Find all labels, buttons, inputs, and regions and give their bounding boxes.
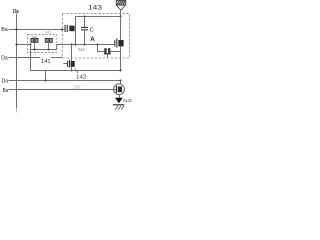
node dot V5/H10 — [70, 69, 72, 71]
wire Da horizontal H7 — [9, 57, 63, 59]
wire scan-line vertical V1 — [16, 14, 18, 109]
svg-text:Da: Da — [2, 79, 9, 85]
wire H4 main row — [57, 44, 115, 46]
node dot H5/V7 — [83, 15, 85, 17]
ELVSS terminal — [113, 104, 124, 109]
transistor M-upper in block 143 — [114, 39, 123, 48]
diode arrow — [115, 98, 123, 103]
dashed block 143 — [63, 14, 130, 58]
node dot T-right gate — [47, 48, 49, 50]
wire V9 into circle — [120, 81, 122, 85]
wire V3 — [45, 71, 47, 81]
node dot H4/V6 — [75, 44, 77, 46]
transistor T-left in block 141 — [31, 36, 38, 49]
transistor Q (circle) driving OLED — [114, 84, 125, 95]
wire V6 — [75, 17, 77, 45]
node dot T-left gate — [33, 48, 35, 50]
svg-text:C: C — [90, 27, 94, 33]
svg-text:ALD: ALD — [123, 98, 132, 103]
wire V9 lower — [120, 46, 122, 70]
wire V9 upper — [120, 17, 122, 41]
wire H11 — [9, 80, 121, 82]
leader line for 142 — [75, 69, 78, 73]
transistor 142 — [63, 45, 74, 71]
svg-text:1411: 1411 — [44, 30, 51, 34]
node dot H11/V3 — [44, 79, 46, 81]
node dot H11/V9 — [119, 79, 121, 81]
wire from power to block — [120, 10, 122, 17]
wire H2 — [17, 44, 31, 46]
node dot H10/V9 — [119, 69, 121, 71]
power ELVDD arrow — [117, 6, 126, 11]
transistor T-right in block 141 — [44, 30, 52, 49]
svg-text:Ba: Ba — [1, 27, 8, 33]
wire ELVDD row H5 — [76, 16, 121, 18]
node dot H1 at x62 — [61, 28, 63, 30]
svg-text:Ba: Ba — [3, 88, 9, 94]
wire H12 base line — [9, 89, 116, 91]
node dot H4/V7 — [83, 43, 85, 45]
wire Ba horizontal H1 — [9, 29, 65, 31]
wire H3 inside block 141 — [31, 49, 57, 51]
capacitor C-left plates — [65, 25, 76, 32]
node dot H5/V9 — [119, 15, 121, 17]
node dot V1/H1 — [15, 28, 17, 30]
power ELVDD hatched bar — [116, 1, 126, 6]
wire V2 — [30, 45, 32, 71]
label 141 (with white backing) — [40, 55, 51, 63]
node dot H2/V2 — [29, 43, 31, 45]
wire H10 — [31, 70, 121, 72]
svg-text:142: 142 — [76, 74, 86, 80]
svg-text:141: 141 — [41, 59, 51, 65]
svg-text:Da: Da — [1, 55, 8, 61]
capacitor C (vertical) — [81, 17, 88, 45]
node dot H4/V8 — [96, 43, 98, 45]
transistor M-lower in block 143 — [98, 45, 121, 58]
dashed block 141 — [28, 35, 57, 53]
node dot H4/V5 — [70, 43, 72, 45]
wire circle to diode — [119, 95, 121, 98]
svg-text:M2: M2 — [78, 47, 85, 52]
svg-text:16a: 16a — [13, 9, 20, 15]
svg-text:150: 150 — [73, 85, 81, 90]
node dot V1/H2 — [15, 43, 17, 45]
svg-text:A: A — [90, 36, 95, 43]
svg-text:143: 143 — [88, 5, 103, 11]
